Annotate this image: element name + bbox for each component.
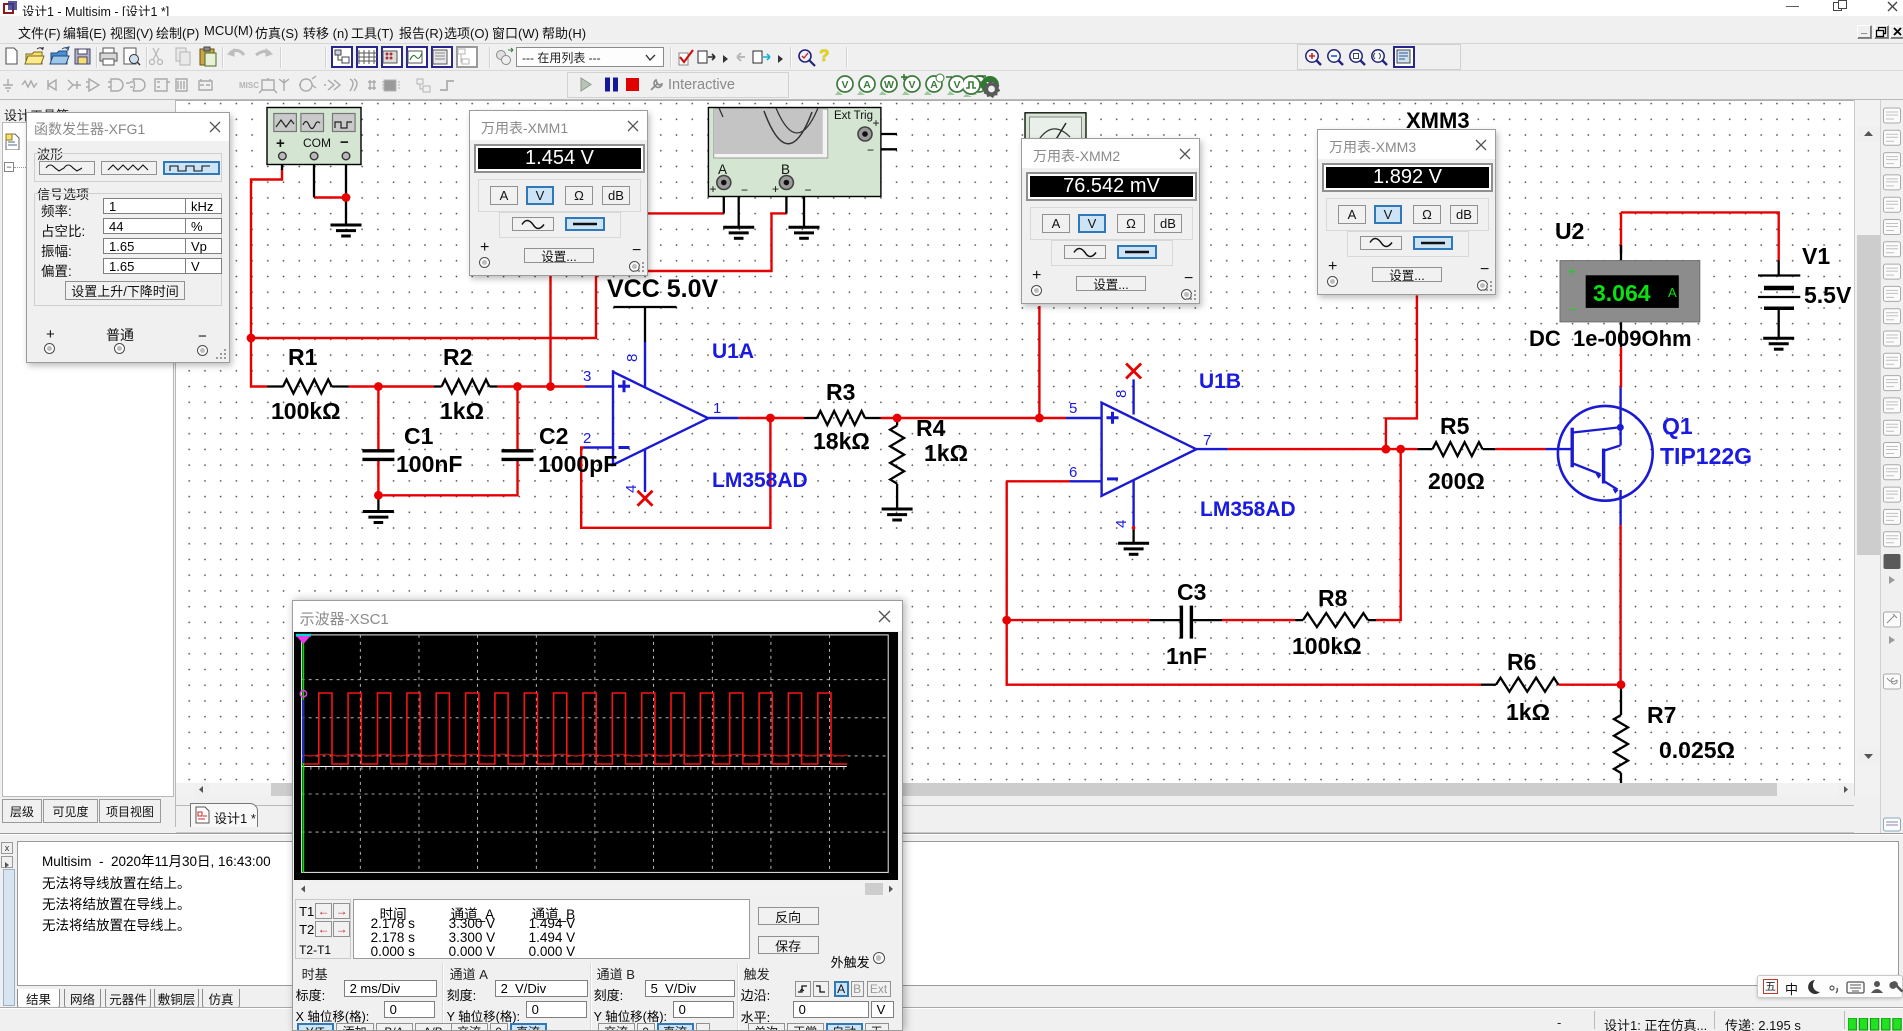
svg-text:200Ω: 200Ω <box>1428 468 1485 494</box>
svg-text:C2: C2 <box>539 423 568 449</box>
svg-text:8: 8 <box>1113 390 1130 398</box>
svg-text:A: A <box>1668 285 1677 300</box>
svg-text:1nF: 1nF <box>1166 643 1207 669</box>
svg-text:U1B: U1B <box>1199 370 1241 393</box>
svg-text:1kΩ: 1kΩ <box>924 440 968 466</box>
svg-text:+: + <box>710 182 717 196</box>
svg-text:VCC 5.0V: VCC 5.0V <box>607 275 718 303</box>
svg-text:V: V <box>953 79 960 91</box>
svg-text:LM358AD: LM358AD <box>712 469 808 492</box>
svg-text:R5: R5 <box>1440 413 1470 439</box>
svg-text:+: + <box>873 116 880 130</box>
svg-text:Ext Trig: Ext Trig <box>834 110 873 122</box>
svg-text:2: 2 <box>583 430 591 447</box>
svg-text:V1: V1 <box>1802 243 1830 269</box>
svg-text:LM358AD: LM358AD <box>1200 498 1296 521</box>
svg-text:100kΩ: 100kΩ <box>1292 633 1362 659</box>
svg-text:−: − <box>867 143 874 157</box>
svg-text:18kΩ: 18kΩ <box>813 428 870 454</box>
svg-text:+: + <box>1567 264 1576 281</box>
svg-text:COM: COM <box>303 136 331 150</box>
svg-text:MISC: MISC <box>239 81 259 90</box>
svg-text:3: 3 <box>583 368 591 385</box>
svg-text:R3: R3 <box>826 379 855 405</box>
svg-text:C1: C1 <box>404 423 434 449</box>
svg-text:3.064: 3.064 <box>1593 280 1651 306</box>
svg-text:+: + <box>276 135 285 152</box>
svg-text:Q1: Q1 <box>1662 413 1693 439</box>
svg-text:100nF: 100nF <box>396 451 462 477</box>
svg-text:A: A <box>718 162 727 177</box>
svg-text:R1: R1 <box>288 344 318 370</box>
svg-text:R8: R8 <box>1318 585 1348 611</box>
svg-text:7: 7 <box>1203 432 1211 449</box>
svg-text:1000pF: 1000pF <box>538 451 617 477</box>
svg-text:1: 1 <box>713 400 721 417</box>
svg-text:R6: R6 <box>1507 649 1536 675</box>
svg-text:−: − <box>1569 302 1578 319</box>
svg-text:0.025Ω: 0.025Ω <box>1659 737 1735 763</box>
svg-text:5: 5 <box>1069 400 1077 417</box>
svg-text:V: V <box>908 79 915 91</box>
svg-text:8: 8 <box>624 354 641 362</box>
svg-text:−: − <box>340 134 349 151</box>
svg-text:+: + <box>772 182 779 196</box>
svg-text:V: V <box>841 79 848 91</box>
svg-text:R4: R4 <box>916 415 946 441</box>
svg-text:−: − <box>741 183 748 197</box>
svg-text:W: W <box>884 79 894 91</box>
svg-text:U1A: U1A <box>712 340 754 363</box>
svg-text:6: 6 <box>1069 464 1077 481</box>
svg-text:U2: U2 <box>1555 218 1584 244</box>
svg-text:B: B <box>781 162 790 177</box>
svg-text:1kΩ: 1kΩ <box>1506 699 1550 725</box>
svg-text:4: 4 <box>623 485 640 493</box>
svg-text:A: A <box>863 79 871 91</box>
svg-text:−: − <box>805 183 812 197</box>
svg-text:5.5V: 5.5V <box>1804 282 1852 308</box>
svg-text:R2: R2 <box>443 344 472 370</box>
svg-text:100kΩ: 100kΩ <box>271 398 341 424</box>
svg-text:DC 1e-009Ohm: DC 1e-009Ohm <box>1529 326 1692 351</box>
svg-text:R7: R7 <box>1647 702 1676 728</box>
svg-text:C3: C3 <box>1177 579 1206 605</box>
svg-text:TIP122G: TIP122G <box>1660 443 1752 469</box>
svg-text:1kΩ: 1kΩ <box>440 398 484 424</box>
svg-text:4: 4 <box>1113 520 1130 528</box>
